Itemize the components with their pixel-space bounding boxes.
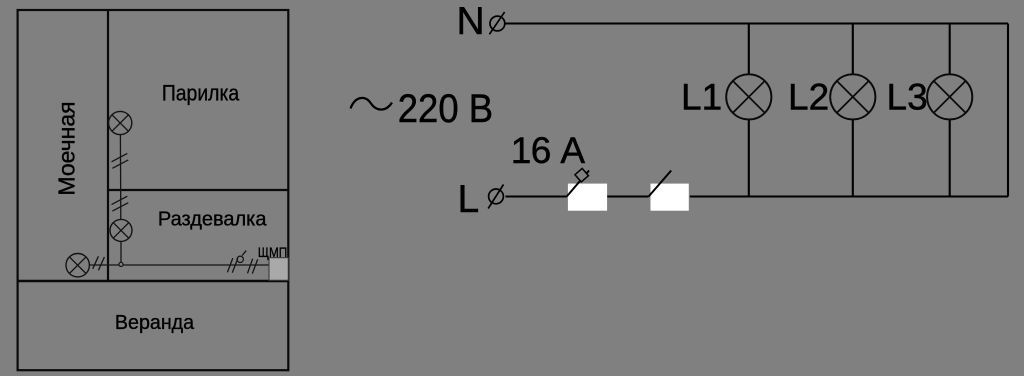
svg-text:Веранда: Веранда xyxy=(115,311,195,334)
svg-text:Парилка: Парилка xyxy=(162,80,240,105)
svg-text:L3: L3 xyxy=(887,76,928,117)
svg-text:Раздевалка: Раздевалка xyxy=(158,208,267,230)
svg-text:16 А: 16 А xyxy=(511,130,586,171)
svg-text:Моечная: Моечная xyxy=(54,101,80,195)
svg-text:N: N xyxy=(457,0,485,43)
svg-text:220 В: 220 В xyxy=(398,87,493,131)
svg-text:L1: L1 xyxy=(681,76,722,117)
svg-text:L2: L2 xyxy=(788,76,829,117)
svg-text:ЩМП: ЩМП xyxy=(258,245,287,260)
svg-text:L: L xyxy=(458,178,480,221)
